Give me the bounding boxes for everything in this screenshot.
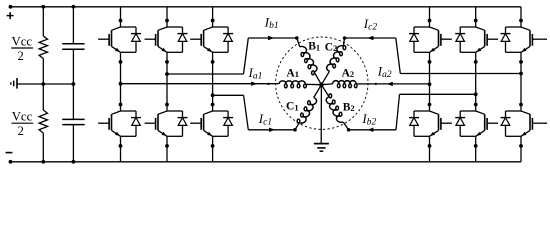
svg-text:Vcc: Vcc bbox=[12, 35, 33, 49]
svg-text:Ib2: Ib2 bbox=[361, 111, 376, 128]
svg-text:A2: A2 bbox=[342, 67, 355, 79]
svg-text:Ic1: Ic1 bbox=[258, 111, 272, 128]
svg-text:C1: C1 bbox=[286, 101, 299, 113]
svg-text:2: 2 bbox=[17, 49, 23, 63]
svg-text:Ia2: Ia2 bbox=[377, 64, 392, 81]
svg-text:Ia1: Ia1 bbox=[248, 65, 263, 82]
svg-text:B2: B2 bbox=[343, 101, 355, 113]
svg-text:C2: C2 bbox=[325, 41, 338, 53]
svg-text:Vcc: Vcc bbox=[12, 110, 33, 124]
svg-text:Ib1: Ib1 bbox=[264, 15, 279, 32]
svg-text:Ic2: Ic2 bbox=[363, 16, 378, 33]
svg-text:2: 2 bbox=[18, 124, 24, 138]
svg-text:A1: A1 bbox=[286, 67, 299, 79]
svg-text:B1: B1 bbox=[308, 41, 320, 53]
